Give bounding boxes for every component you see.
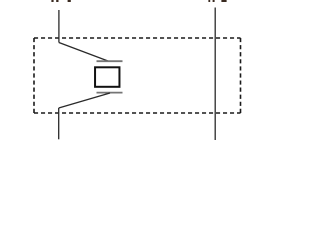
- dashed enclosure box, bottom edge: [34, 112, 241, 114]
- dashed enclosure box, left edge: [33, 38, 35, 113]
- wire (left lead, bottom vertical): [58, 108, 60, 139]
- crystal top plate: [97, 60, 123, 62]
- dashed enclosure box, right edge: [240, 38, 242, 113]
- crystal bottom plate: [97, 92, 123, 94]
- cut-off label text (right, top of frame): [208, 0, 226, 2]
- dashed enclosure box, top edge: [34, 37, 241, 39]
- wire (bottom diagonal lead): [59, 93, 110, 108]
- cut-off label text (left, top of frame): [51, 0, 70, 2]
- wire (left lead, top vertical): [58, 10, 60, 43]
- wire (top diagonal lead): [59, 43, 108, 62]
- crystal Y1 (quartz element): [95, 67, 119, 87]
- wire (right vertical): [214, 8, 216, 141]
